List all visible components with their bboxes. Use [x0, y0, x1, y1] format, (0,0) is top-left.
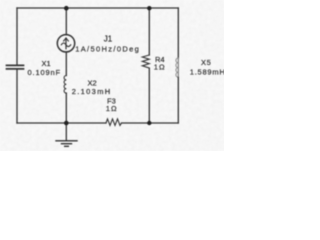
wire right bottom [177, 78, 179, 124]
svg-text:J1: J1 [104, 35, 113, 44]
capacitor X1 [7, 65, 24, 69]
resistor F3 [106, 119, 122, 126]
wire R4 top [148, 8, 150, 55]
svg-text:0.109nF: 0.109nF [28, 68, 61, 77]
node top-middle [64, 6, 69, 11]
svg-text:1Ω: 1Ω [106, 104, 118, 113]
wire middle top [65, 8, 67, 35]
svg-text:1A/50Hz/0Deg: 1A/50Hz/0Deg [75, 44, 140, 53]
wire bottom right [122, 122, 179, 124]
wire R4 bottom [148, 68, 150, 123]
wire ground stub [65, 123, 67, 141]
svg-text:X5: X5 [201, 58, 211, 67]
wire bottom left [17, 122, 106, 124]
ground [56, 141, 77, 147]
current source J1 [57, 35, 74, 52]
node top-R4 [147, 6, 151, 10]
wire left lower [16, 70, 18, 124]
wire left upper [16, 8, 18, 65]
svg-text:1.589mH: 1.589mH [190, 68, 224, 77]
node bottom-middle [64, 121, 69, 126]
svg-text:1Ω: 1Ω [154, 63, 166, 72]
svg-text:X1: X1 [42, 59, 51, 68]
wire middle bottom [65, 93, 67, 123]
node bottom-R4 [147, 121, 151, 125]
wire right top [177, 8, 179, 58]
inductor X5 [176, 58, 178, 77]
wire top [17, 7, 178, 9]
inductor X2 [64, 76, 66, 94]
svg-text:X2: X2 [88, 78, 97, 87]
wire middle mid [65, 52, 67, 76]
wire right through coil [177, 58, 179, 78]
resistor R4 [142, 55, 149, 68]
svg-text:2.103mH: 2.103mH [72, 87, 112, 96]
